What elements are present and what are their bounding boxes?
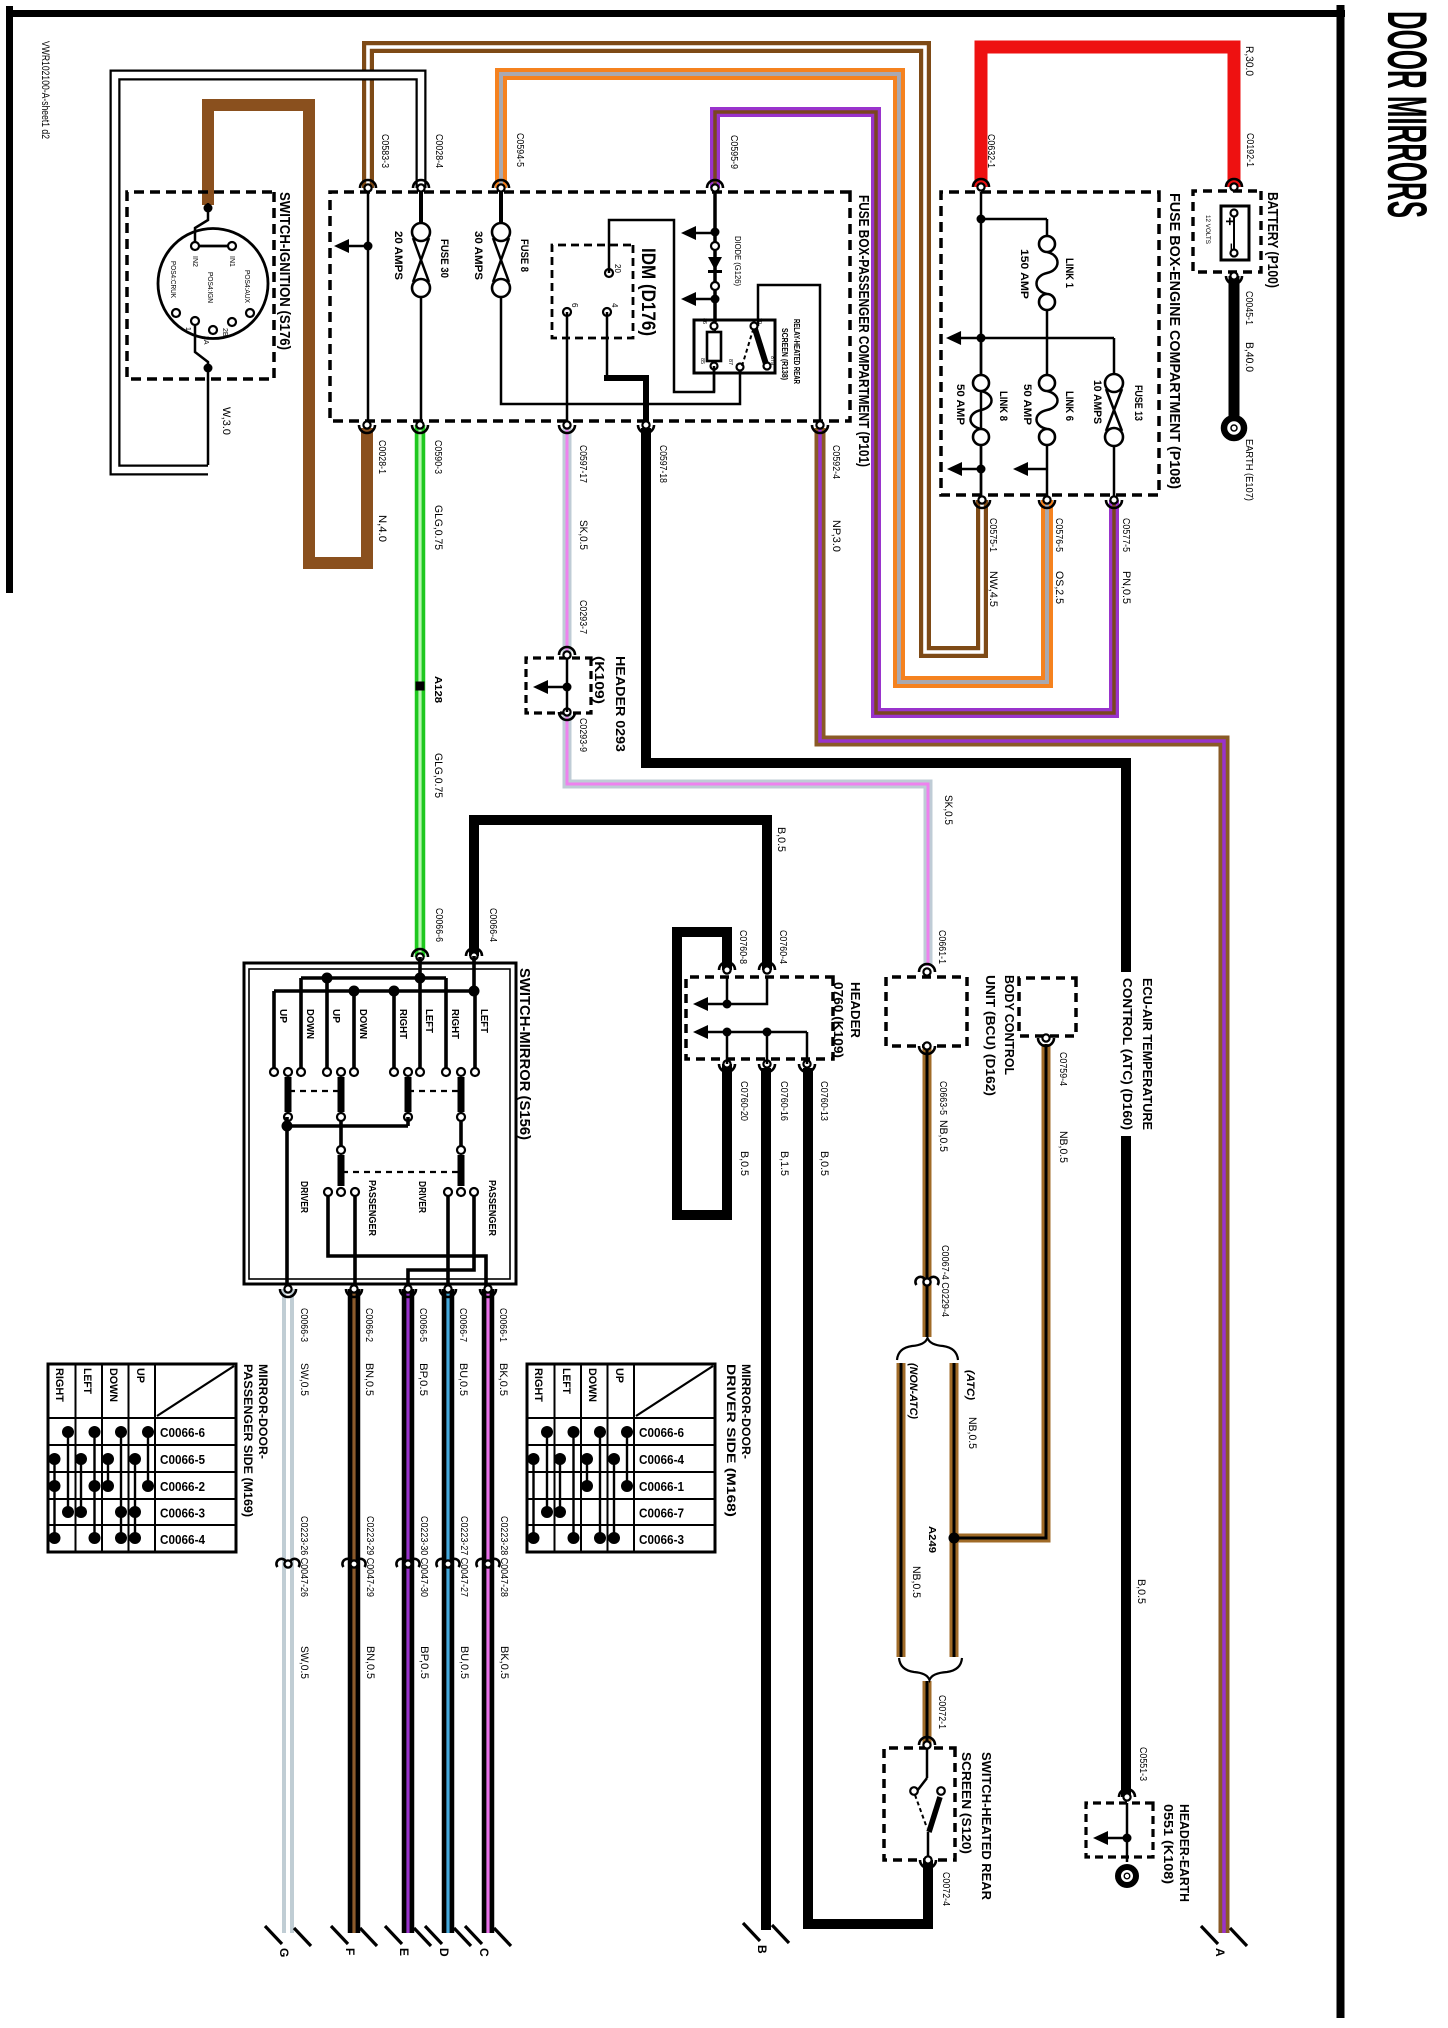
header 0293 K109 outline	[526, 658, 591, 713]
svg-text:C0072-4: C0072-4	[940, 1872, 951, 1906]
connector C0576-5	[1039, 496, 1065, 604]
svg-text:SW,0.5: SW,0.5	[298, 1363, 310, 1396]
svg-text:W,3.0: W,3.0	[220, 407, 232, 435]
svg-text:C0293-7: C0293-7	[577, 600, 588, 634]
IDM pin 4	[603, 303, 619, 316]
wire link8 out	[947, 445, 981, 500]
offpage arrow B	[743, 1923, 789, 1954]
svg-text:G: G	[277, 1948, 291, 1957]
IDM pin 20	[605, 264, 622, 277]
svg-text:C0066-2: C0066-2	[160, 1480, 205, 1494]
label GLG,0.75 lower	[432, 753, 444, 798]
svg-text:B,0.5: B,0.5	[818, 1151, 830, 1176]
label NB,0.5 NON-ATC	[910, 1566, 922, 1598]
svg-text:FUSE 13: FUSE 13	[1132, 385, 1144, 421]
arrow C0595-9 a	[681, 226, 715, 240]
svg-text:C0597-18: C0597-18	[657, 445, 668, 483]
label (ATC)	[964, 1370, 976, 1400]
connector C0575-1	[974, 496, 999, 607]
svg-text:BU,0.5: BU,0.5	[458, 1646, 470, 1679]
svg-text:50 AMP: 50 AMP	[1021, 384, 1033, 425]
svg-text:UP: UP	[277, 1009, 288, 1023]
svg-text:C0066-1: C0066-1	[639, 1480, 684, 1494]
svg-text:LINK 6: LINK 6	[1063, 391, 1075, 421]
S120 label	[959, 1752, 994, 1901]
connector C0551-3	[1119, 1579, 1148, 1801]
svg-text:C0067-4 C0229-4: C0067-4 C0229-4	[939, 1245, 950, 1317]
S156 pins	[270, 1068, 479, 1076]
svg-text:A249: A249	[926, 1526, 937, 1553]
svg-text:C0223-29 C0047-29: C0223-29 C0047-29	[364, 1516, 375, 1597]
title DOOR MIRRORS	[1376, 11, 1439, 218]
svg-text:C0759-4: C0759-4	[1057, 1052, 1068, 1086]
wire BK,0.5 C0066-1 to C	[482, 1289, 495, 1933]
svg-text:CONTROL (ATC) (D160): CONTROL (ATC) (D160)	[1120, 978, 1135, 1130]
svg-text:C0663-5: C0663-5	[937, 1081, 948, 1115]
border frame left rule	[6, 6, 13, 593]
svg-text:C0028-4: C0028-4	[433, 134, 444, 168]
switch-heated rear screen S120 outline	[884, 1748, 955, 1860]
wire IDM4 to C0597-18	[604, 312, 646, 425]
fusible link LINK 1 150 AMP	[1018, 236, 1075, 310]
svg-text:C0293-9: C0293-9	[577, 718, 588, 752]
wire N lead into switch	[195, 203, 213, 242]
wire NP,3.0 C0592-4 to A	[820, 428, 1224, 1933]
ECU air temperature control D160 outline	[1019, 978, 1076, 1036]
connector C0028-4	[413, 134, 444, 192]
diode G126	[708, 236, 742, 290]
svg-text:LEFT: LEFT	[560, 1368, 572, 1394]
svg-text:86: 86	[701, 318, 707, 324]
wire GLG,0.75 C0590-3 to C0066-6	[415, 425, 426, 957]
S156 selector2	[444, 1146, 478, 1196]
wire code label G	[298, 1646, 310, 1679]
wire code label C	[498, 1646, 510, 1679]
brace merge to C0072-1	[899, 1658, 962, 1680]
svg-text:B,0.5: B,0.5	[738, 1151, 750, 1176]
svg-text:C0028-1: C0028-1	[376, 440, 387, 474]
connector C0760-4	[759, 827, 788, 974]
connector C0028-1	[359, 421, 388, 542]
wire fuse13 out	[1113, 445, 1116, 500]
svg-text:BODY CONTROL: BODY CONTROL	[1002, 975, 1017, 1075]
splice on wire F	[342, 1516, 375, 1597]
svg-text:50 AMP: 50 AMP	[954, 384, 966, 425]
brace split ATC/NON-ATC	[897, 1338, 958, 1360]
svg-text:C0066-5: C0066-5	[160, 1453, 205, 1467]
svg-text:C0575-1: C0575-1	[987, 518, 998, 552]
svg-text:12 VOLTS: 12 VOLTS	[1204, 215, 1211, 245]
switch-mirror S156 outline	[244, 963, 516, 1284]
header 0760 label	[831, 982, 863, 1058]
wire SK,0.5 header0293 to C0661-1	[567, 712, 928, 966]
svg-text:C0066-3: C0066-3	[160, 1507, 205, 1521]
svg-text:DRIVER SIDE (M168): DRIVER SIDE (M168)	[724, 1364, 738, 1517]
svg-text:SWITCH-MIRROR (S156): SWITCH-MIRROR (S156)	[516, 968, 533, 1140]
header 0760 K109 outline	[686, 977, 833, 1059]
connector C0590-3	[412, 421, 444, 550]
connector C0760-8	[719, 930, 748, 974]
wire N,4.0 ignition to C0028-1	[208, 105, 367, 563]
svg-text:C0590-3: C0590-3	[432, 440, 443, 474]
connector C0293-9	[559, 708, 588, 752]
svg-text:C0066-7: C0066-7	[639, 1507, 684, 1521]
svg-text:0760 (K109): 0760 (K109)	[831, 982, 846, 1058]
K108 earth ring	[1118, 1867, 1136, 1885]
wire OS,2.5 C0576-5 to C0594-5	[501, 74, 1047, 682]
svg-text:B,1.5: B,1.5	[778, 1151, 790, 1176]
wire SK,0.5 C0597-17 to header0293	[563, 428, 572, 655]
svg-text:2A: 2A	[202, 336, 209, 345]
svg-text:N,4.0: N,4.0	[376, 515, 388, 542]
svg-text:BK,0.5: BK,0.5	[497, 1363, 509, 1396]
fusible link LINK 6 50 AMP	[1021, 375, 1075, 445]
svg-text:C0045-1: C0045-1	[1243, 291, 1254, 325]
wire code label D	[458, 1646, 470, 1679]
svg-text:FUSE 30: FUSE 30	[438, 239, 450, 278]
wire relay85 stub	[713, 366, 716, 392]
wire SW,0.5 C0066-3 to G	[282, 1289, 294, 1933]
connector C0072-4	[920, 1856, 951, 1906]
IDM label	[637, 248, 658, 336]
svg-text:C0066-3: C0066-3	[639, 1533, 684, 1547]
S156 out C0066-2	[353, 1196, 357, 1289]
svg-text:C0760-16: C0760-16	[778, 1081, 789, 1121]
svg-text:HEADER: HEADER	[848, 982, 863, 1039]
splice A128	[416, 676, 444, 703]
svg-text:HEADER-EARTH: HEADER-EARTH	[1177, 1804, 1192, 1902]
offpage arrow A	[1201, 1926, 1247, 1957]
connector C0583-3	[360, 134, 390, 192]
svg-text:NB,0.5: NB,0.5	[937, 1120, 949, 1152]
svg-text:C0760-20: C0760-20	[738, 1081, 749, 1121]
border frame top rule	[7, 10, 1345, 17]
wire W lead from switch pin1	[195, 325, 213, 465]
S156 out C0066-1	[328, 1196, 486, 1289]
svg-text:C0583-3: C0583-3	[379, 134, 390, 168]
connector C0066-6 top	[412, 908, 444, 961]
svg-text:DOWN: DOWN	[586, 1368, 598, 1402]
S120 internal	[910, 1748, 945, 1860]
header-earth 0551 K108 outline	[1086, 1803, 1153, 1857]
svg-text:SW,0.5: SW,0.5	[298, 1646, 310, 1679]
connector C0192-1	[1226, 46, 1255, 191]
offpage arrow E	[385, 1926, 431, 1956]
wire C0583-3 to C0028-1	[334, 192, 373, 425]
svg-text:150 AMP: 150 AMP	[1018, 249, 1030, 299]
label NB,0.5 ATC	[966, 1417, 978, 1449]
svg-text:C0066-4: C0066-4	[160, 1533, 205, 1547]
svg-text:B,40.0: B,40.0	[1243, 342, 1255, 372]
svg-text:C0066-6: C0066-6	[639, 1426, 684, 1440]
header 0293 label	[592, 656, 628, 752]
svg-text:SCREEN (S120): SCREEN (S120)	[959, 1752, 974, 1854]
S156 toggle levers	[284, 1077, 465, 1121]
offpage arrow F	[331, 1926, 377, 1955]
svg-text:LEFT: LEFT	[423, 1009, 434, 1033]
wire junction bus row	[961, 337, 1114, 340]
wire NW,4.5 C0575-1 to C0583-3	[368, 47, 982, 652]
svg-text:POS4:AUX: POS4:AUX	[243, 270, 250, 303]
svg-text:D: D	[437, 1948, 451, 1957]
connector C0066-7	[440, 1285, 469, 1396]
header 0760 row2	[693, 1025, 807, 1064]
wire B,0.5 C0072-4 to C0760-13	[808, 1068, 928, 1924]
S156 out C0066-5	[408, 1196, 474, 1289]
S156 common link	[282, 1117, 409, 1289]
svg-text:DOWN: DOWN	[304, 1009, 315, 1039]
svg-text:RIGHT: RIGHT	[532, 1368, 544, 1402]
connector C0577-5	[1106, 496, 1132, 604]
wire BP,0.5 C0066-5 to E	[402, 1289, 415, 1933]
svg-text:+: +	[1221, 217, 1238, 226]
wire PN,0.5 C0577-5 to C0595-9	[715, 112, 1114, 713]
svg-text:B,0.5: B,0.5	[1135, 1579, 1147, 1604]
svg-text:2B: 2B	[221, 328, 228, 337]
S156 drop to selector1	[339, 1121, 343, 1150]
connector C0066-5	[400, 1285, 429, 1396]
connector C0592-4	[812, 421, 842, 552]
connector C0760-16	[759, 1060, 790, 1176]
label W,3.0	[220, 407, 232, 435]
svg-text:C0592-4: C0592-4	[830, 445, 841, 479]
svg-text:FUSE BOX-ENGINE COMPARTMENT (P: FUSE BOX-ENGINE COMPARTMENT (P108)	[1166, 193, 1183, 489]
svg-text:SK,0.5: SK,0.5	[942, 795, 954, 825]
svg-text:B: B	[755, 1945, 769, 1954]
svg-text:DRIVER: DRIVER	[298, 1181, 309, 1214]
svg-text:PASSENGER: PASSENGER	[366, 1180, 377, 1237]
connector C0759-4	[1038, 1034, 1069, 1163]
svg-text:LINK 1: LINK 1	[1063, 258, 1075, 288]
wire internal P108 bus	[977, 192, 986, 500]
svg-text:A128: A128	[432, 676, 443, 703]
earth E107 ring terminal	[1224, 418, 1254, 501]
splice on wire C	[476, 1516, 509, 1597]
fusible link LINK 8 50 AMP	[954, 375, 1009, 445]
svg-text:0551 (K108): 0551 (K108)	[1161, 1804, 1176, 1884]
offpage arrow D	[425, 1926, 471, 1957]
fuse box passenger label	[855, 195, 872, 467]
svg-text:C0066-4: C0066-4	[639, 1453, 684, 1467]
svg-text:F: F	[343, 1948, 357, 1955]
header 0293 internal	[533, 658, 572, 712]
svg-text:C0597-17: C0597-17	[577, 445, 588, 483]
fuse FUSE 30 20 AMPS	[392, 192, 450, 425]
svg-text:BATTERY (P100): BATTERY (P100)	[1264, 192, 1281, 288]
relay label	[780, 319, 801, 384]
connector C0066-4 top	[466, 908, 498, 960]
wire link1 to bus	[1046, 310, 1049, 338]
label C0072-1	[936, 1695, 947, 1729]
svg-text:RIGHT: RIGHT	[449, 1009, 460, 1039]
offpage arrow G	[265, 1926, 311, 1957]
svg-text:IN2: IN2	[191, 256, 198, 267]
svg-text:POS4:CRUK: POS4:CRUK	[169, 261, 176, 298]
svg-text:C0595-9: C0595-9	[728, 135, 739, 169]
svg-text:MIRROR-DOOR-: MIRROR-DOOR-	[256, 1364, 270, 1459]
svg-text:C0066-2: C0066-2	[363, 1308, 374, 1342]
svg-text:R,30.0: R,30.0	[1243, 46, 1255, 76]
ignition switch S176 rotor	[158, 229, 268, 345]
svg-text:UNIT (BCU) (D162): UNIT (BCU) (D162)	[983, 975, 998, 1096]
svg-text:ECU-AIR TEMPERATURE: ECU-AIR TEMPERATURE	[1140, 978, 1155, 1130]
svg-text:C0066-4: C0066-4	[487, 908, 498, 942]
svg-text:SWITCH-IGNITION (S176): SWITCH-IGNITION (S176)	[276, 192, 293, 350]
K108 internal	[1093, 1803, 1132, 1862]
connector C0293-7	[559, 600, 588, 659]
S156 direction labels	[277, 1009, 489, 1039]
svg-text:(K109): (K109)	[592, 656, 607, 704]
S156 gang dashes row2	[344, 1171, 458, 1173]
svg-text:DOWN: DOWN	[357, 1009, 368, 1039]
connector C0597-18	[638, 421, 668, 483]
svg-text:VWR102100-A-sheet1 d2: VWR102100-A-sheet1 d2	[39, 41, 51, 139]
svg-text:20 AMPS: 20 AMPS	[392, 231, 404, 280]
svg-text:IN1: IN1	[228, 256, 235, 267]
svg-text:NW,4.5: NW,4.5	[987, 571, 999, 607]
connector C0661-1	[919, 795, 954, 976]
wire R,30.0 battery to C0632-1	[981, 47, 1234, 187]
svg-text:B,0.5: B,0.5	[775, 827, 787, 852]
wire NB,0.5 ATC branch from C0759-4	[954, 1044, 1046, 1538]
wire link1 branch	[981, 219, 1047, 236]
svg-text:PN,0.5: PN,0.5	[1120, 571, 1132, 604]
svg-text:C0066-1: C0066-1	[497, 1308, 508, 1342]
svg-text:−: −	[1224, 243, 1239, 251]
wire NB,0.5 (NON-ATC)	[897, 1363, 906, 1657]
S156 gang dashes row1	[291, 1090, 458, 1092]
battery label	[1264, 192, 1281, 288]
svg-text:85: 85	[699, 358, 705, 364]
svg-text:C0223-26 C0047-26: C0223-26 C0047-26	[298, 1516, 309, 1597]
svg-text:C0066-3: C0066-3	[298, 1308, 309, 1342]
svg-text:UP: UP	[330, 1009, 341, 1023]
wire relay30 to C0592-4	[758, 285, 820, 425]
connector C0066-3	[280, 1285, 310, 1396]
svg-text:C: C	[477, 1948, 491, 1957]
connector C0597-17	[559, 421, 589, 550]
svg-text:LINK 8: LINK 8	[997, 391, 1009, 421]
svg-text:(NON-ATC): (NON-ATC)	[907, 1363, 919, 1419]
svg-text:NB,0.5: NB,0.5	[966, 1417, 978, 1449]
connector C0066-2	[346, 1285, 375, 1396]
IDM pin 6	[563, 303, 579, 316]
wire code label F	[364, 1646, 376, 1679]
svg-text:UP: UP	[134, 1368, 146, 1383]
svg-text:C0223-30 C0047-30: C0223-30 C0047-30	[418, 1516, 429, 1597]
connector C0594-5	[493, 133, 525, 192]
svg-text:C0066-6: C0066-6	[433, 908, 444, 942]
switch-ignition S176 outline	[127, 192, 274, 379]
svg-text:GLG,0.75: GLG,0.75	[432, 505, 444, 550]
svg-text:C0223-28 C0047-28: C0223-28 C0047-28	[498, 1516, 509, 1597]
switch-mirror label	[516, 968, 533, 1140]
svg-text:BN,0.5: BN,0.5	[363, 1363, 375, 1396]
svg-text:6: 6	[570, 303, 579, 308]
svg-text:30 AMPS: 30 AMPS	[472, 231, 484, 280]
connector C0663-5	[919, 1042, 949, 1152]
svg-text:BP,0.5: BP,0.5	[418, 1646, 430, 1679]
fuse box engine compartment P108 outline	[941, 192, 1159, 495]
connector C0066-1	[480, 1285, 509, 1396]
svg-text:EARTH (E107): EARTH (E107)	[1243, 439, 1254, 501]
wire B,40.0 battery to earth	[1229, 276, 1240, 418]
body control unit BCU D162 outline	[886, 977, 967, 1046]
border frame side rule	[1337, 5, 1345, 2018]
svg-text:IDM (D176): IDM (D176)	[637, 248, 658, 336]
table mirror-door passenger side M169	[48, 1364, 270, 1552]
wire B,0.5 C0597-18 to C0551-3	[646, 428, 1126, 1797]
BCU label	[983, 975, 1017, 1096]
svg-text:RIGHT: RIGHT	[53, 1368, 65, 1402]
svg-text:NB,0.5: NB,0.5	[910, 1566, 922, 1598]
splice on wire D	[436, 1516, 469, 1597]
svg-text:SCREEN (R138): SCREEN (R138)	[780, 328, 789, 380]
wire W,3.0 ignition loop	[115, 75, 421, 470]
splice on wire G	[276, 1516, 309, 1597]
svg-text:HEADER 0293: HEADER 0293	[613, 656, 628, 752]
IDM D176 outline	[552, 245, 633, 338]
splice C0067-4 C0229-4	[915, 1245, 950, 1317]
switch-ignition label	[276, 192, 293, 350]
wire link8 stub	[980, 338, 983, 375]
wire NB,0.5 brace to C0072-1	[923, 1681, 932, 1745]
sheet reference	[39, 41, 51, 139]
svg-text:E: E	[397, 1948, 411, 1956]
ECU ATC label	[1118, 972, 1160, 1136]
wire B,1.5 C0760-16 to B	[761, 1068, 771, 1930]
connector C0632-1	[973, 134, 996, 191]
svg-text:PASSENGER SIDE (M169): PASSENGER SIDE (M169)	[241, 1364, 255, 1517]
K108 label	[1161, 1804, 1192, 1902]
table mirror-door driver side M168	[527, 1364, 753, 1552]
svg-text:BU,0.5: BU,0.5	[457, 1363, 469, 1396]
svg-text:A: A	[1213, 1948, 1227, 1957]
node A249 junction	[926, 1526, 960, 1553]
svg-text:C0760-8: C0760-8	[737, 930, 748, 964]
svg-text:BP,0.5: BP,0.5	[417, 1363, 429, 1396]
svg-text:DIODE (G126): DIODE (G126)	[733, 236, 742, 286]
connector C0595-9	[707, 135, 739, 192]
svg-text:1: 1	[184, 327, 191, 331]
arrow C0595-9 b	[681, 292, 715, 306]
svg-text:LEFT: LEFT	[478, 1009, 489, 1033]
svg-text:GLG,0.75: GLG,0.75	[432, 753, 444, 798]
S156 out C0066-7	[446, 1196, 450, 1289]
svg-text:POS4:IGN: POS4:IGN	[206, 272, 213, 303]
svg-text:10 AMPS: 10 AMPS	[1091, 380, 1103, 424]
header 0760 row1	[693, 977, 767, 1011]
S156 selector1	[324, 1146, 359, 1196]
svg-text:C0661-1: C0661-1	[936, 930, 947, 964]
svg-text:C0576-5: C0576-5	[1053, 518, 1064, 552]
svg-text:C0066-7: C0066-7	[457, 1308, 468, 1342]
svg-text:SWITCH-HEATED REAR: SWITCH-HEATED REAR	[979, 1752, 994, 1901]
svg-text:C0551-3: C0551-3	[1137, 1747, 1148, 1781]
svg-text:C0760-4: C0760-4	[777, 930, 788, 964]
svg-text:20: 20	[613, 264, 622, 273]
svg-text:C0594-5: C0594-5	[514, 133, 525, 167]
relay R108 heated rear screen	[694, 318, 775, 373]
splice on wire E	[396, 1516, 429, 1597]
svg-text:C0577-5: C0577-5	[1120, 518, 1131, 552]
connector C0760-13	[799, 1060, 830, 1176]
arrow out left P108	[946, 331, 961, 345]
wire BU,0.5 C0066-7 to D	[442, 1289, 455, 1933]
svg-text:FUSE BOX-PASSENGER COMPARTMENT: FUSE BOX-PASSENGER COMPARTMENT (P101)	[855, 195, 872, 467]
svg-text:87: 87	[727, 359, 733, 365]
svg-text:C0066-5: C0066-5	[417, 1308, 428, 1342]
